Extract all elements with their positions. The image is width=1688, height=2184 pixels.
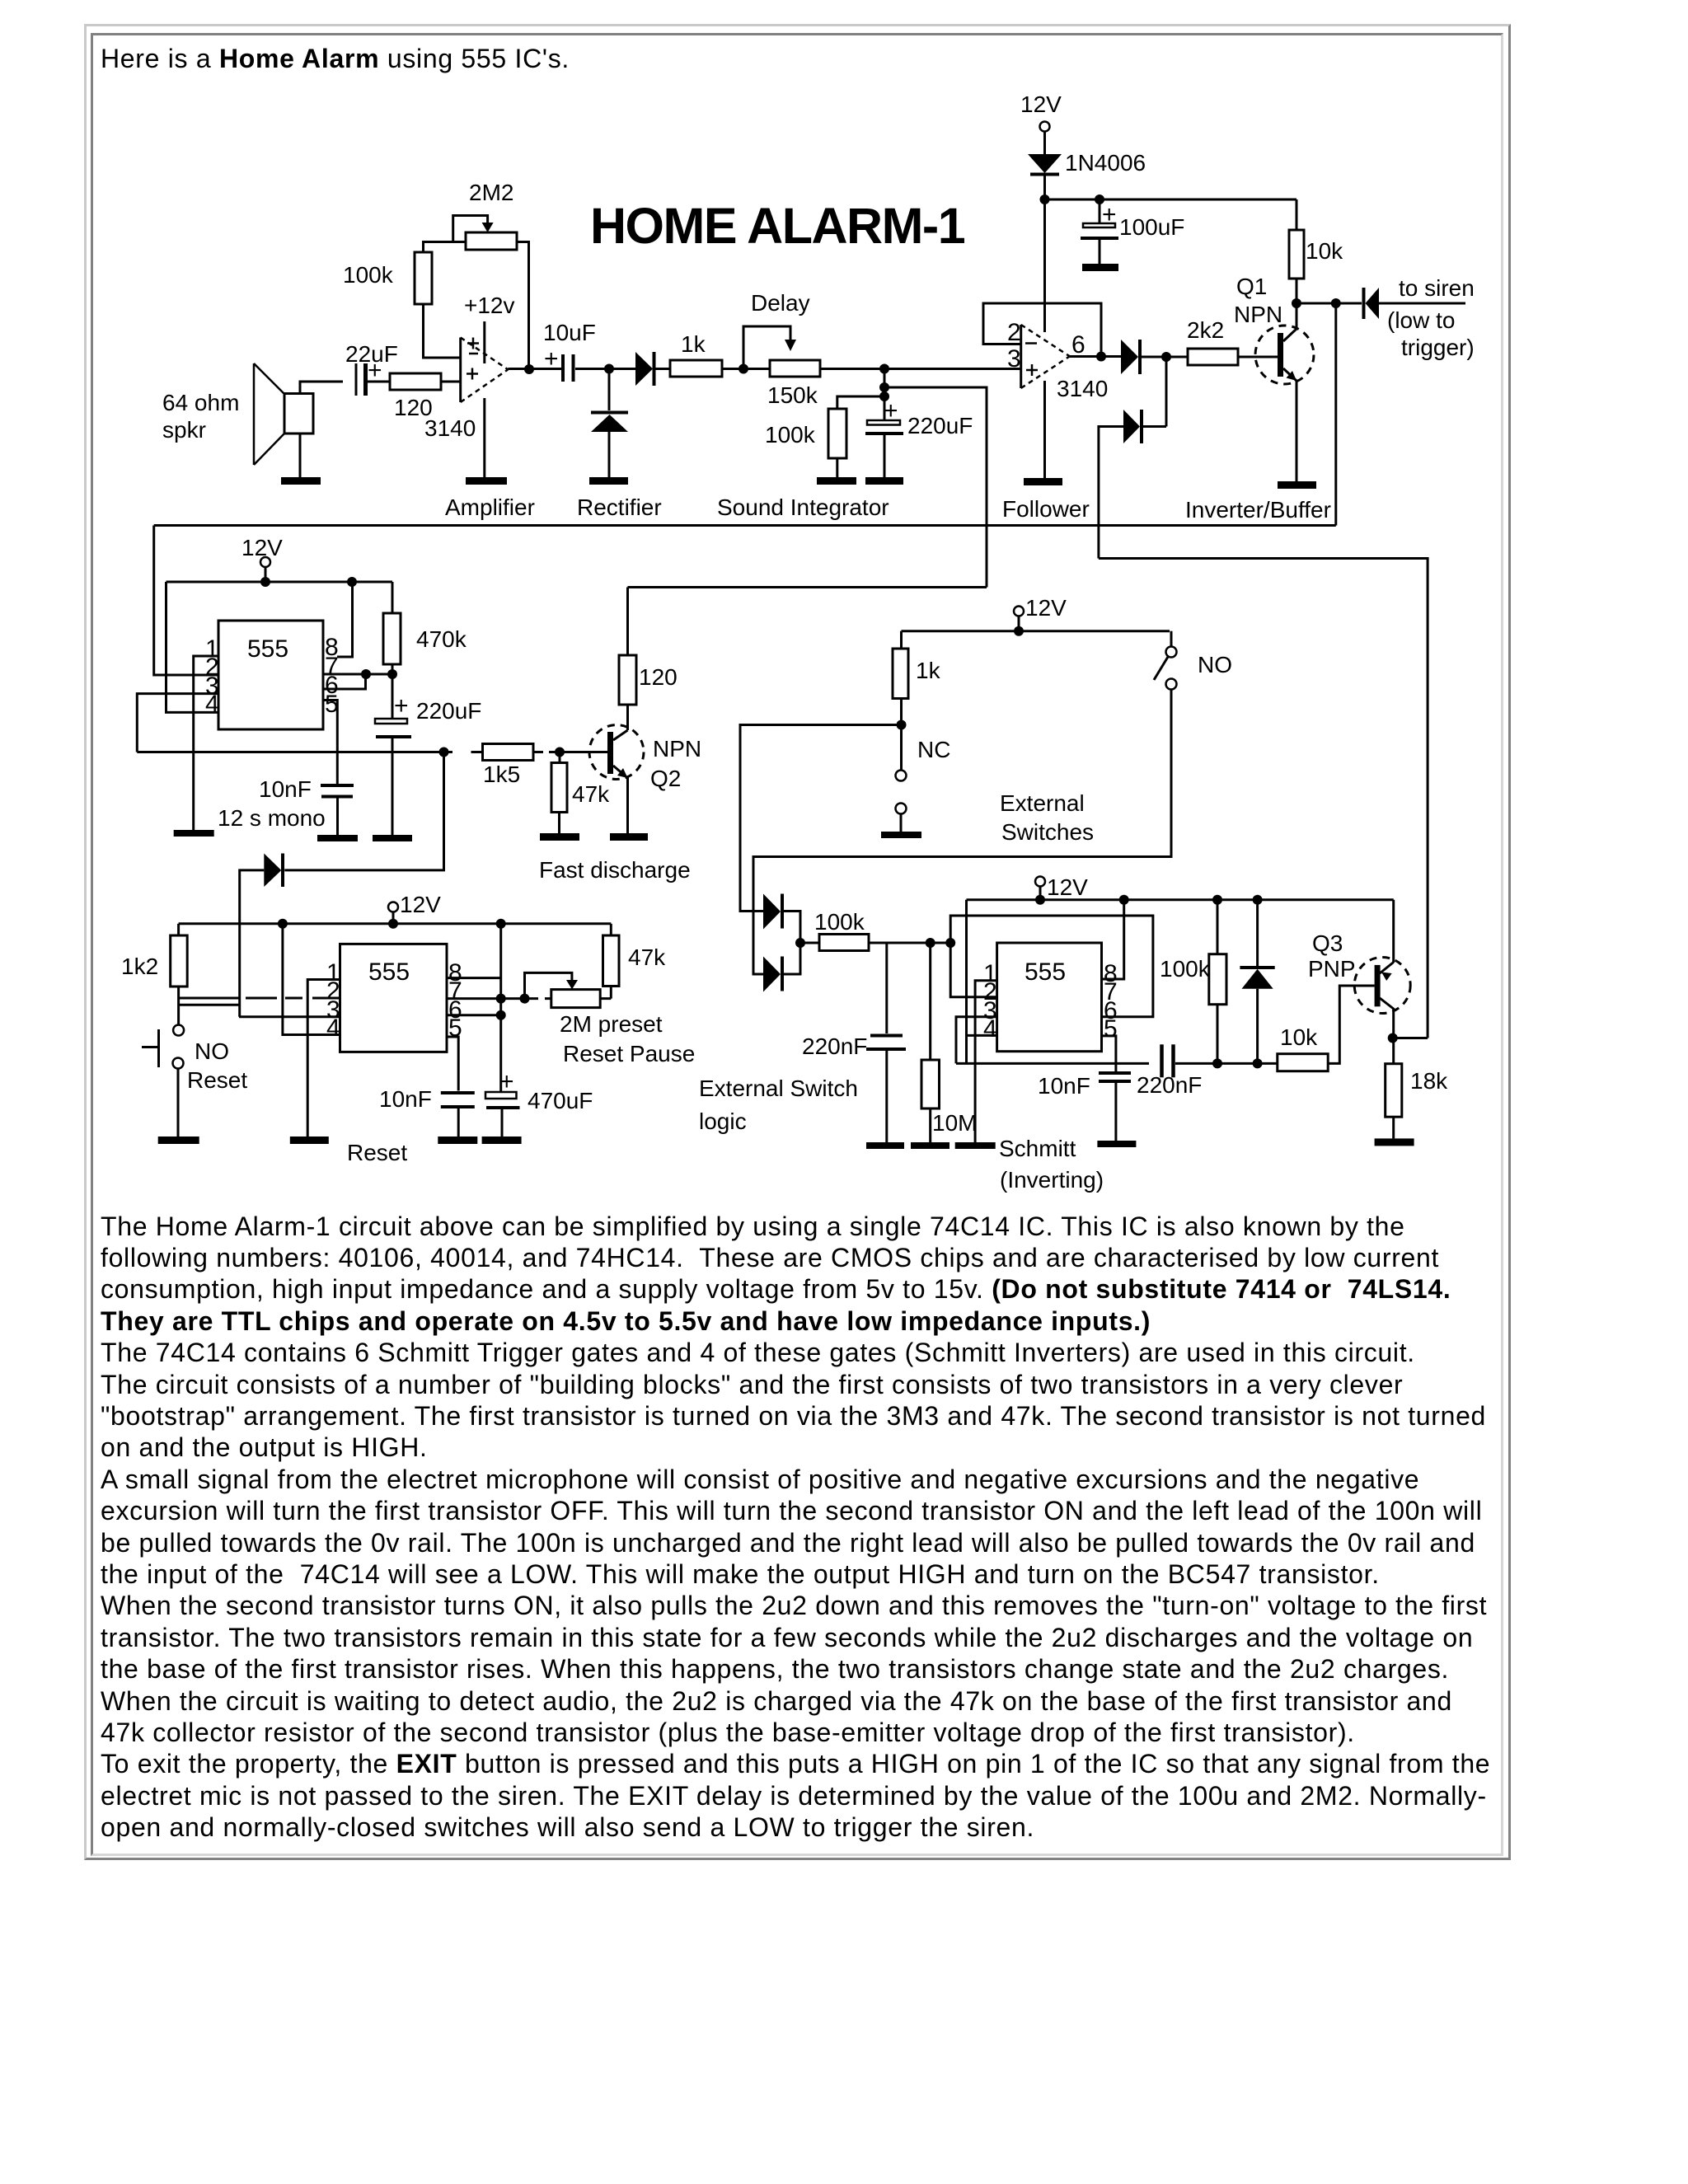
- node Q1 collector junction: [1292, 298, 1301, 308]
- ground under 470uF: [482, 1137, 522, 1144]
- svg-text:logic: logic: [699, 1108, 747, 1134]
- capacitor 220nF (schmitt out): [1137, 1044, 1202, 1098]
- wire 555#3 pin4 stub: [967, 1034, 997, 1037]
- wire diode to 12V rail node: [1043, 176, 1046, 199]
- diode NO logic (pointing right): [763, 943, 800, 992]
- resistor 1k: [670, 331, 722, 377]
- switch NO Reset pushbutton: [142, 1025, 247, 1094]
- wire junction to 100k: [800, 942, 819, 944]
- wire op-amp V- to ground: [483, 398, 485, 477]
- wire 1k2 to NO reset: [177, 987, 180, 1025]
- node integrator junction top: [879, 364, 889, 374]
- wire 120 to op-amp: [441, 381, 461, 383]
- ground under 10nF#2: [438, 1137, 477, 1144]
- wire 2k2 to Q1 base: [1238, 356, 1278, 359]
- node rail junction 100k: [1212, 895, 1222, 905]
- node trigger junction: [945, 938, 955, 948]
- wire NC junction to diode line: [740, 725, 902, 912]
- capacitor 22uF: [345, 341, 398, 396]
- node junction 100uF tap: [1095, 194, 1104, 204]
- wire 1k to delay pot: [722, 368, 770, 370]
- ground under Q1: [1278, 481, 1316, 489]
- wire speaker to 22uF: [300, 382, 343, 393]
- ground under speaker: [281, 477, 321, 485]
- node delay junction: [738, 364, 748, 374]
- label External Switch logic: [699, 1076, 858, 1134]
- IC 555 #1 (12 s mono): [205, 621, 339, 729]
- resistor 100k (switch logic): [814, 909, 869, 951]
- wire junction to box line down: [884, 387, 987, 588]
- transistor Q2 NPN fast discharge: [589, 725, 701, 792]
- wire signal into follower pin 3: [884, 368, 1021, 370]
- wire 12V rail #4: [967, 898, 1394, 901]
- label Fast discharge: [539, 857, 691, 883]
- wire junction to 100k integrator: [837, 396, 884, 409]
- capacitor 220uF integrator: [865, 397, 973, 477]
- wire op-amp output: [508, 368, 561, 370]
- svg-text:220nF: 220nF: [1137, 1072, 1202, 1098]
- preset 2M2: [453, 180, 517, 250]
- wire 10uF to rectifier node: [575, 368, 635, 370]
- label Schmitt (Inverting): [999, 1136, 1104, 1193]
- wire 100k to 555#3 trigger net: [869, 942, 950, 944]
- node output junction diode: [1253, 1058, 1263, 1068]
- svg-text:PNP: PNP: [1308, 956, 1356, 982]
- svg-text:10nF: 10nF: [1038, 1073, 1090, 1099]
- wire 2M2 right to output: [517, 242, 529, 370]
- wire 555#1 pin5 to 10nF: [323, 701, 337, 785]
- wire output line to 220nF: [956, 1062, 1149, 1065]
- wire 220nF to Q3 base net: [1175, 1062, 1278, 1065]
- ground under integrator 100k: [817, 477, 856, 485]
- ground under 100uF: [1082, 264, 1118, 271]
- wire pot to integrator node: [820, 368, 884, 370]
- resistor 1k (NC pullup): [893, 631, 941, 699]
- wire rail vertical to 470uF: [499, 924, 502, 1092]
- wire Q1 collector: [1296, 303, 1298, 330]
- label +12v: [464, 293, 515, 318]
- wire 10k to Q3 base: [1328, 986, 1374, 1063]
- resistor 120 (fast discharge): [619, 655, 678, 705]
- title HOME ALARM-1: [590, 198, 965, 254]
- wire 555#1 pin6 tie: [323, 674, 366, 689]
- label Sound Integrator: [717, 494, 889, 520]
- resistor 1k5: [483, 744, 534, 788]
- wire 555#1 pin7 to timing node: [323, 673, 392, 676]
- ground under follower: [1024, 478, 1062, 485]
- node follower output junction: [1096, 352, 1106, 362]
- wire 12V terminal to diode: [1043, 132, 1046, 155]
- diode speedup (cathode up): [1240, 900, 1274, 1064]
- node amp output junction: [524, 364, 534, 374]
- wire rail to Q3 emitter: [1392, 900, 1395, 963]
- diode reset feed (pointing right): [264, 854, 283, 888]
- node rectifier junction: [604, 364, 614, 374]
- node rail junction pin4: [278, 919, 288, 929]
- svg-text:100k: 100k: [1160, 956, 1211, 982]
- wire trigger junction to pin2: [950, 943, 996, 997]
- wire 12V rail #2: [179, 922, 612, 925]
- wire 555#1 pin4 to rail: [166, 582, 219, 712]
- ground under Q2: [610, 833, 648, 841]
- wire Q2 emitter to ground: [626, 777, 629, 833]
- node mono output junction: [439, 748, 449, 757]
- diode lower (external trigger into 2k2 node): [1123, 410, 1142, 443]
- node pin7 wiper junction: [520, 994, 530, 1004]
- ground under 220uF integrator: [865, 477, 903, 485]
- node junction 12V distribution: [1040, 194, 1050, 204]
- node 2k2 input junction: [1161, 352, 1171, 362]
- wire 12V distribution rail to 10k: [1045, 199, 1297, 201]
- node 12V terminal 555#1: [241, 535, 283, 587]
- node junction to line A: [1331, 298, 1341, 308]
- resistor 100k (amp feedback): [343, 252, 432, 304]
- wire 555#1 pin1 to ground: [194, 656, 218, 830]
- wire follower V+ from 12V: [1043, 199, 1046, 332]
- node Q2 base junction: [555, 748, 565, 757]
- ground under 10M: [911, 1142, 949, 1149]
- wire 555#2 pin8 to rail: [447, 977, 501, 979]
- ground under 220nF: [866, 1142, 904, 1149]
- node 10M junction: [926, 938, 935, 948]
- svg-text:555: 555: [1025, 958, 1066, 986]
- wire 555#1 pin2 from line A: [154, 526, 218, 676]
- resistor 10M: [921, 943, 977, 1142]
- wire line A vertical from siren node: [1334, 303, 1337, 526]
- wire Q1 emitter to ground: [1296, 380, 1298, 481]
- wire follower V- to ground: [1043, 381, 1046, 478]
- wire 555#3 pin3 output to line: [956, 1017, 997, 1064]
- node Q3 collector junction: [1388, 1033, 1398, 1043]
- ground under rectifier: [589, 477, 628, 485]
- resistor 10k (Q3 base): [1278, 1024, 1328, 1071]
- wire 1k to NC junction: [900, 699, 903, 771]
- node 12V terminal ext switches: [1014, 595, 1067, 636]
- body paragraph text: [101, 1211, 1490, 1844]
- diode follower output (pointing right): [1121, 340, 1140, 374]
- resistor 100k (schmitt pullup): [1160, 900, 1226, 1064]
- resistor 470k: [383, 582, 467, 674]
- ground under 555#1 pin1: [174, 830, 214, 837]
- wire 555#2 pin3 output stub: [239, 1015, 340, 1018]
- wire NO switch to diode line: [753, 690, 1171, 975]
- wire 100k to pin2: [424, 304, 461, 358]
- label Amplifier: [445, 494, 535, 520]
- resistor 1k2: [121, 924, 187, 987]
- transistor Q1 labels: [1234, 274, 1282, 327]
- wire 555#3 pin1 to ground: [975, 981, 997, 1142]
- wire line C down to 120 resistor: [626, 588, 629, 656]
- wire 2k2 node down to lower diode: [1142, 357, 1166, 427]
- diode to siren (cathode left): [1364, 288, 1380, 319]
- capacitor 10uF: [543, 320, 596, 382]
- heading: [101, 44, 570, 74]
- ground under 18k: [1375, 1138, 1414, 1146]
- wire rail to 555#3 pin4 and output line: [965, 900, 968, 1064]
- wire follower output: [1070, 355, 1121, 358]
- capacitor 220nF (switch logic): [802, 943, 906, 1142]
- capacitor 10nF (555#2 pin5): [379, 1086, 475, 1137]
- capacitor 220uF (mono timing): [375, 674, 481, 835]
- resistor 47k (reset pause): [603, 924, 667, 999]
- wire follower feedback loop: [983, 303, 1101, 357]
- node timing junction pin6: [361, 669, 371, 679]
- switch NO external: [1154, 631, 1232, 690]
- ground under amplifier: [466, 477, 507, 485]
- svg-text:18k: 18k: [1410, 1068, 1448, 1094]
- svg-text:220nF: 220nF: [802, 1033, 867, 1059]
- node diode OR junction: [795, 938, 805, 948]
- wire collector node to line B vertical: [1393, 1037, 1428, 1039]
- ground under 555#3 pin1: [955, 1142, 996, 1149]
- label 12 s mono: [218, 805, 326, 831]
- wire NO reset to ground: [177, 1069, 180, 1137]
- wire 100k to ground: [836, 458, 838, 477]
- node rail junction pin8 schmitt: [1119, 895, 1129, 905]
- node output junction 100k: [1212, 1058, 1222, 1068]
- capacitor 10nF (555#1 pin5): [259, 776, 354, 835]
- svg-text:100k: 100k: [814, 909, 865, 935]
- resistor 10k (Q1 collector load): [1289, 230, 1343, 279]
- wire rail to 555#1 pin8: [337, 582, 353, 657]
- IC 555 #3 (Schmitt): [983, 943, 1118, 1052]
- ground under 220uF mono: [373, 835, 412, 841]
- capacitor 10nF (555#3 pin5): [1038, 1073, 1131, 1142]
- wire Q3 collector to 18k node: [1392, 1008, 1395, 1064]
- node junction mid (to follower box): [879, 382, 889, 392]
- node pin6 junction: [496, 1010, 506, 1020]
- wire 120 collector feed line C: [628, 586, 987, 588]
- wire base line from 1k5: [534, 751, 607, 753]
- speaker 64 ohm: [162, 363, 313, 465]
- wire 12V rail #1: [166, 581, 393, 583]
- node junction lower (to 100k): [879, 391, 889, 401]
- node 12V terminal schmitt: [1035, 874, 1088, 905]
- wire 555#3 pin8 to rail: [1102, 900, 1124, 979]
- wire line A horizontal (feedback to 555 #1 trigger): [154, 524, 1336, 527]
- wire junction stack vertical: [884, 369, 886, 421]
- wire rail corner down to 10k: [1296, 199, 1298, 230]
- wire 555#2 pin1 to ground: [307, 980, 340, 1137]
- svg-text:Schmitt: Schmitt: [999, 1136, 1076, 1161]
- wire 555#2 pin6 stub: [447, 1014, 501, 1016]
- node rail junction pin8: [496, 919, 506, 929]
- wire diode anode to 555#2 output: [240, 870, 265, 1017]
- node rail junction diode: [1253, 895, 1263, 905]
- resistor 2k2: [1187, 317, 1238, 365]
- diode NC logic (pointing right): [763, 894, 800, 944]
- wire feedback pin6 to pin2: [950, 916, 1153, 1017]
- label Follower: [1002, 496, 1090, 522]
- wire 100k top to 2M2 left: [424, 242, 467, 253]
- svg-text:External Switch: External Switch: [699, 1076, 858, 1101]
- resistor 18k: [1386, 1064, 1448, 1139]
- diode 1N4006: [1028, 150, 1146, 176]
- wire diode to 1k: [654, 368, 671, 370]
- outer table frame (outset): [84, 24, 1511, 1860]
- node rail junction pin8: [347, 577, 357, 587]
- IC 555 #2 (Reset): [326, 944, 462, 1052]
- svg-text:4: 4: [983, 1015, 997, 1043]
- wire 555#2 pin5 to 10nF: [447, 1037, 458, 1091]
- capacitor C 100uF: [1081, 199, 1184, 264]
- inner table frame (inset): [91, 33, 1503, 1856]
- wire 22uF to 120: [368, 381, 390, 383]
- op-amp U2 follower triangle: [1007, 319, 1108, 401]
- svg-text:Q3: Q3: [1312, 930, 1343, 956]
- wire lower diode anode to line B: [1099, 427, 1123, 559]
- wire speaker to ground: [299, 434, 302, 477]
- transistor Q3 PNP: [1308, 930, 1410, 1014]
- resistor 47k (Q2 base): [551, 752, 610, 834]
- diode series (pointing right): [635, 352, 654, 386]
- wire 10k to collector node: [1296, 279, 1298, 303]
- svg-text:(Inverting): (Inverting): [1000, 1167, 1104, 1193]
- svg-text:10M: 10M: [932, 1110, 977, 1136]
- preset Delay 150k: [743, 290, 820, 408]
- label Rectifier: [577, 494, 662, 520]
- wire +12v into op-amp V+: [483, 321, 485, 363]
- wire 1k2 to output vertical: [179, 1004, 239, 1006]
- wire diode to 2k2 node: [1140, 356, 1188, 359]
- resistor 100k (integrator): [765, 409, 846, 458]
- diode rectifier shunt (cathode up): [591, 369, 628, 478]
- node 12V top supply terminal: [1020, 91, 1062, 132]
- node pin7 junction: [496, 994, 506, 1004]
- wire line B to Q3 collector: [1099, 559, 1428, 1038]
- wire collector node to siren diode: [1296, 302, 1362, 305]
- wire pin2 dashed: [179, 997, 340, 1000]
- capacitor 470uF: [485, 1068, 593, 1137]
- wire 555#1 pin3 output: [137, 694, 218, 752]
- label Inverter/Buffer: [1185, 497, 1331, 523]
- preset 2M Reset Pause: [525, 972, 696, 1066]
- ground under 10nF: [317, 835, 358, 841]
- wire 555#1 output line to 1k5: [137, 751, 482, 753]
- svg-text:10k: 10k: [1280, 1024, 1318, 1050]
- node 12V terminal reset section: [388, 892, 441, 929]
- ground under 555#2 pin1: [290, 1137, 329, 1144]
- wire 555#3 pin5 to 10nF: [1102, 1036, 1116, 1071]
- wire 555#2 pin7 stub: [447, 997, 551, 1000]
- wire 555#2 pin4 to rail: [283, 924, 340, 1035]
- resistor 120 (input): [390, 373, 441, 420]
- switch NC contacts: [896, 737, 951, 832]
- ground under 10nF#3: [1097, 1141, 1136, 1147]
- label External Switches: [1000, 790, 1094, 845]
- node timing junction 470k: [387, 669, 397, 679]
- transistor Q1 NPN: [1255, 326, 1314, 384]
- svg-text:12V: 12V: [1047, 874, 1088, 900]
- op-amp U1 amplifier 3140: [424, 338, 508, 442]
- ground under 47k: [540, 833, 579, 841]
- wire to siren: [1379, 302, 1465, 305]
- ground under NO reset: [158, 1137, 199, 1144]
- label Reset: [347, 1140, 407, 1165]
- wire 120 to Q2 collector: [626, 705, 629, 730]
- wire junction down to reset diode: [284, 752, 443, 870]
- ground under NC: [881, 832, 921, 838]
- node NC junction: [897, 720, 907, 730]
- wire 12V rail #3 external switches: [902, 630, 1170, 632]
- node to siren label: [1387, 275, 1475, 360]
